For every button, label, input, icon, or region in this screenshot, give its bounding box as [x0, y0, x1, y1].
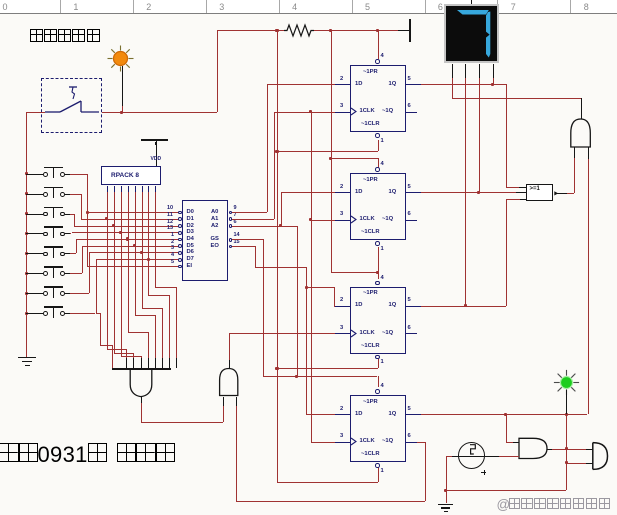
wire A1 / clock chain top	[232, 219, 274, 220]
ground (left bus)	[18, 357, 36, 358]
wire U2D ~1Q net	[425, 442, 426, 501]
wire U5 output to U4	[557, 193, 567, 194]
switch J3	[25, 212, 28, 215]
wire A2 to U2B 1D	[232, 226, 280, 227]
AND gate G2	[217, 366, 241, 397]
wire encoder input rows D0-D7/EI	[87, 212, 178, 213]
wire U4 left input	[574, 147, 575, 158]
flip-flop U2B 7474	[350, 173, 406, 240]
buzzer LS1	[589, 439, 611, 473]
wire U2A 1Q net (7seg pin4, OR in1)	[421, 84, 506, 85]
flip-flop U2D 7474	[350, 395, 406, 462]
AND gate G1 (8-input)	[112, 368, 171, 369]
wire clock net	[446, 456, 452, 457]
switch J1	[25, 172, 28, 175]
wire U2B 1Q net (7seg pin3, OR in2)	[421, 192, 479, 193]
encoder U1 74148	[182, 200, 228, 281]
wire switch-to-encoder staircase	[70, 174, 87, 175]
switch J6	[25, 272, 28, 275]
wire U2C 1Q net (7seg pin2, OR in3)	[421, 306, 506, 307]
wire EO to U2C/U2D 1D	[232, 246, 255, 247]
wire clock chain	[311, 112, 312, 442]
AND gate U6	[517, 436, 549, 461]
switch J7	[25, 292, 28, 295]
wire G1 output	[141, 403, 142, 422]
wire preset chain	[378, 30, 379, 59]
OR gate U5 (>=1)	[526, 184, 553, 202]
clock source V1	[458, 442, 485, 469]
wire U2D 1Q net	[421, 414, 588, 415]
wire buzzer return	[566, 463, 586, 464]
ground (clock)	[438, 504, 454, 506]
switch J8	[25, 312, 28, 315]
reset switch S9 (dashed box)	[41, 78, 103, 133]
switch J4	[25, 232, 28, 235]
terminal bar (rail end)	[409, 19, 411, 42]
wire GS to U2D preset	[232, 239, 262, 240]
wire A0 to U2A 1D	[232, 212, 267, 213]
LED2 green indicator	[548, 364, 585, 401]
switch J5	[25, 252, 28, 255]
wire 7-seg pin1 to AND output	[452, 98, 580, 99]
wire reset net	[26, 112, 45, 113]
ruler scale bar	[0, 0, 617, 14]
power VDD	[156, 140, 157, 167]
switch J2	[25, 192, 28, 195]
wire 7-seg pins	[452, 64, 453, 79]
resistor R1	[284, 22, 314, 39]
AND gate U4 (display blank)	[568, 116, 593, 150]
7-segment display U3	[444, 4, 499, 64]
wire U6 in/out	[506, 414, 507, 442]
wire G2 connections	[229, 334, 230, 361]
wire RPACK pull-up columns	[107, 186, 108, 193]
resistor pack RPACK 8	[101, 166, 162, 185]
label: class and author (ying dian 0931 ban, liu jun luo)	[0, 443, 19, 463]
wire left ground bus	[26, 112, 27, 357]
label: qing ling zhi shi deng (clear indicator lamp)	[30, 29, 43, 42]
LED1 orange clear-indicator lamp	[103, 41, 138, 76]
watermark juejin community	[497, 497, 511, 512]
wire U2B clear to preset chain	[378, 247, 379, 273]
flip-flop U2C 7474	[350, 287, 406, 354]
wire top rail	[217, 30, 286, 31]
flip-flop U2A 7474	[350, 65, 406, 132]
wire LED2 lead	[566, 390, 567, 415]
wire clear chain	[277, 30, 278, 482]
